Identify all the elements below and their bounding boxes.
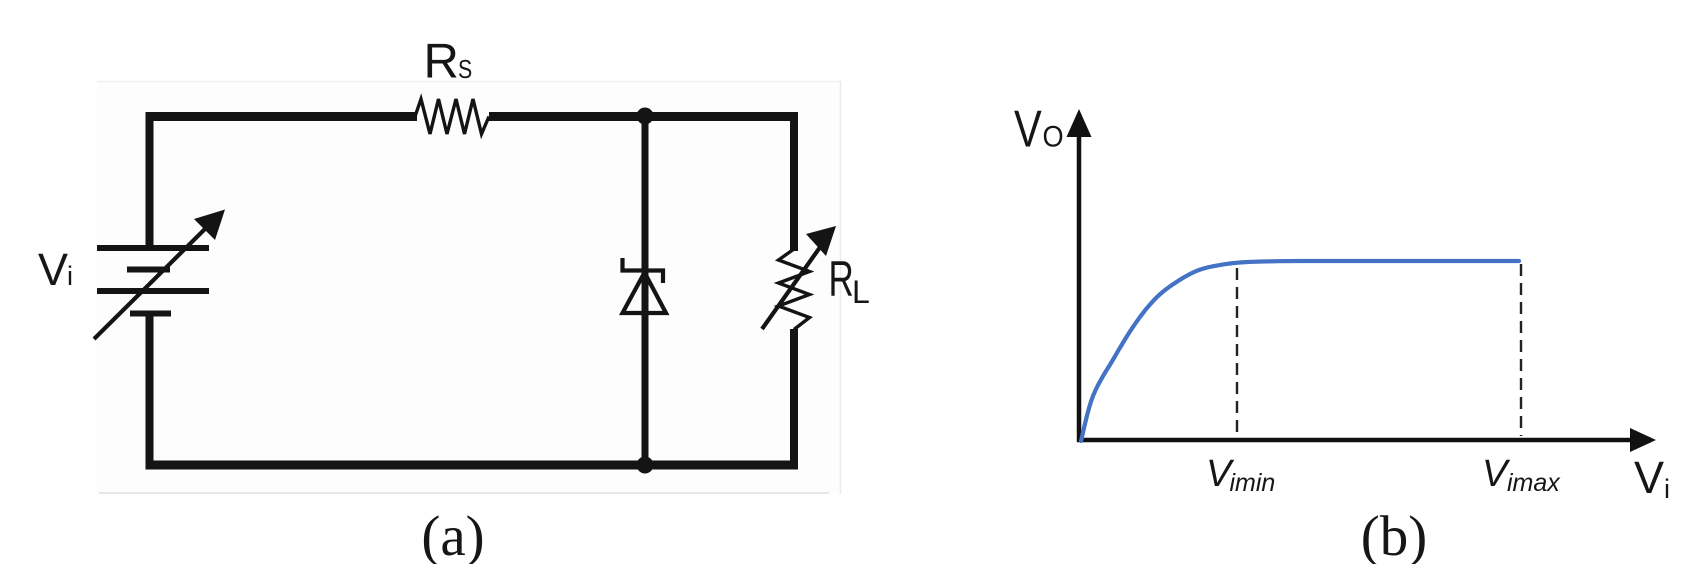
svg-text:R: R [424,35,459,89]
svg-text:R: R [829,252,854,308]
svg-text:i: i [1664,474,1670,504]
svg-text:imax: imax [1507,469,1561,497]
svg-text:O: O [1043,120,1064,153]
svg-text:V: V [1014,99,1042,158]
svg-text:L: L [852,274,870,310]
svg-text:imin: imin [1230,469,1276,497]
svg-text:V: V [38,244,68,295]
svg-text:S: S [458,55,472,85]
svg-text:(b): (b) [1361,505,1427,564]
svg-text:V: V [1634,452,1664,503]
svg-text:i: i [67,261,73,291]
svg-text:(a): (a) [421,505,484,564]
